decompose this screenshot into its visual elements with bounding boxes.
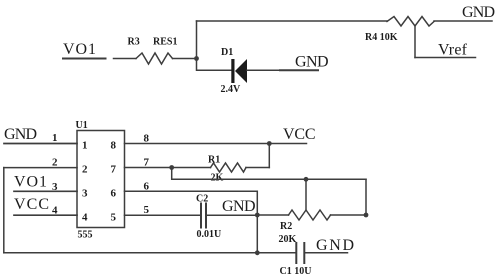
junction node C (on pin 7 wire) xyxy=(169,165,174,170)
wire pin 3 xyxy=(14,190,77,192)
svg-text:3: 3 xyxy=(82,188,88,200)
svg-text:GND: GND xyxy=(222,198,256,215)
pin number 1 (outside) xyxy=(52,132,58,144)
diode D1 xyxy=(231,59,247,83)
wire bottom rail xyxy=(4,252,296,254)
svg-text:D1: D1 xyxy=(221,47,233,58)
svg-text:1: 1 xyxy=(82,140,88,152)
svg-text:1: 1 xyxy=(52,132,58,144)
svg-text:8: 8 xyxy=(144,133,150,145)
pin number 4 (outside) xyxy=(52,205,58,217)
svg-text:R3: R3 xyxy=(128,37,140,48)
svg-text:VCC: VCC xyxy=(283,126,316,143)
pin number 1 (inside) xyxy=(82,140,88,152)
value label 2K xyxy=(211,173,224,184)
power symbol GND (pin 1) xyxy=(4,126,37,143)
pin number 3 (outside) xyxy=(52,181,58,193)
junction node E (R2 right end) xyxy=(364,213,369,218)
net label VCC (pin 4) xyxy=(14,196,49,213)
junction node F (pin6/pin5/R2) xyxy=(255,213,260,218)
wire R2 to node E xyxy=(331,214,367,216)
wire pin 6 xyxy=(125,191,258,253)
svg-text:GND: GND xyxy=(295,54,329,71)
net label VO1 (pin 3) xyxy=(14,174,47,191)
resistor R3 xyxy=(136,53,173,64)
power symbol GND (bottom) xyxy=(316,237,354,254)
svg-text:8: 8 xyxy=(111,140,117,152)
power symbol GND (after D1) xyxy=(295,54,329,71)
wire pin 4 xyxy=(14,214,77,216)
value label 555 xyxy=(78,230,93,241)
svg-text:VO1: VO1 xyxy=(63,41,96,58)
junction node D (above R2 tap) xyxy=(304,177,309,182)
wire C2 to node F xyxy=(207,214,258,216)
svg-text:C2: C2 xyxy=(196,194,208,205)
wire pin 2 xyxy=(4,167,77,169)
label R2 xyxy=(280,221,292,232)
wire R2 tap xyxy=(305,179,307,210)
label U1 xyxy=(76,120,88,131)
value label C1 10U xyxy=(280,266,312,277)
wire Vref stub xyxy=(415,57,476,59)
svg-text:R2: R2 xyxy=(280,221,292,232)
svg-text:VCC: VCC xyxy=(14,196,49,213)
wire R1 right end up to node B xyxy=(268,144,270,168)
wire pin 1 xyxy=(4,143,77,145)
wire GND underline (thick) xyxy=(280,69,318,71)
pin number 6 (outside) xyxy=(144,181,150,193)
svg-text:2: 2 xyxy=(82,164,88,176)
svg-text:VO1: VO1 xyxy=(14,174,47,191)
svg-text:20K: 20K xyxy=(279,234,297,245)
wire node A down to D1 xyxy=(197,59,232,71)
value label 0.01U xyxy=(197,229,222,240)
svg-text:555: 555 xyxy=(78,230,93,241)
junction node G (bottom wire) xyxy=(255,250,260,255)
label D1 xyxy=(221,47,233,58)
wire node A up xyxy=(196,21,198,59)
junction node A xyxy=(194,56,199,61)
pin number 3 (inside) xyxy=(82,188,88,200)
pin number 4 (inside) xyxy=(82,212,88,224)
svg-text:Vref: Vref xyxy=(438,42,468,59)
resistor R4 (with center tap) xyxy=(387,17,434,27)
svg-text:5: 5 xyxy=(111,212,117,224)
value label 20K xyxy=(279,234,297,245)
wire R3 to node A xyxy=(173,58,197,60)
resistor R1 xyxy=(211,163,247,172)
wire VO1 to R3 xyxy=(114,58,137,60)
wire pin 5 to C2 xyxy=(125,214,201,216)
pin number 7 (outside) xyxy=(144,157,150,169)
pin number 6 (inside) xyxy=(111,188,117,200)
value label 2.4V xyxy=(221,84,242,95)
net label VO1 (top) xyxy=(63,41,96,58)
wire C1 to GND xyxy=(305,252,348,254)
svg-text:2.4V: 2.4V xyxy=(221,84,242,95)
svg-text:7: 7 xyxy=(144,157,150,169)
svg-text:0.01U: 0.01U xyxy=(197,229,222,240)
wire top horizontal to R4 xyxy=(197,20,388,22)
wire VO1 underline xyxy=(63,58,106,60)
svg-text:C1 10U: C1 10U xyxy=(280,266,312,277)
wire R4 tap down xyxy=(414,26,416,58)
svg-text:GND: GND xyxy=(316,237,354,254)
svg-text:GND: GND xyxy=(462,4,495,21)
pin number 8 (inside) xyxy=(111,140,117,152)
svg-text:6: 6 xyxy=(111,188,117,200)
power symbol GND (top right) xyxy=(462,4,495,21)
svg-text:GND: GND xyxy=(4,126,37,143)
svg-text:4: 4 xyxy=(82,212,88,224)
pin number 2 (outside) xyxy=(52,157,58,169)
pin number 8 (outside) xyxy=(144,133,150,145)
wire R4 to GND xyxy=(434,20,492,22)
wire pin 7 xyxy=(125,167,211,169)
svg-text:U1: U1 xyxy=(76,120,88,131)
wire pin 8 to VCC xyxy=(125,143,307,145)
svg-text:2K: 2K xyxy=(211,173,224,184)
wire node F to R2 xyxy=(257,214,288,216)
wire R1 to vertical xyxy=(246,167,269,169)
svg-text:R4 10K: R4 10K xyxy=(365,32,398,43)
wire node C jog down xyxy=(172,168,366,180)
resistor R2 (with center tap) xyxy=(289,210,331,220)
label R4 10K xyxy=(365,32,398,43)
svg-text:R1: R1 xyxy=(208,155,220,166)
net label Vref xyxy=(438,42,468,59)
capacitor C2 xyxy=(201,204,206,228)
wire right side down to R2 end xyxy=(365,179,367,215)
value label RES1 xyxy=(153,37,177,48)
pin number 5 (outside) xyxy=(144,204,150,216)
svg-text:2: 2 xyxy=(52,157,58,169)
label R3 xyxy=(128,37,140,48)
pin number 5 (inside) xyxy=(111,212,117,224)
wire pin 2 down left side xyxy=(3,168,5,253)
svg-text:RES1: RES1 xyxy=(153,37,177,48)
pin number 2 (inside) xyxy=(82,164,88,176)
wire D1 to GND xyxy=(247,69,318,71)
svg-text:7: 7 xyxy=(111,164,117,176)
label R1 xyxy=(208,155,220,166)
capacitor C1 xyxy=(296,243,304,263)
net label VCC (pin 8) xyxy=(283,126,316,143)
label C2 xyxy=(196,194,208,205)
pin number 7 (inside) xyxy=(111,164,117,176)
op-amp U1 body (555 IC) xyxy=(77,131,125,228)
svg-text:5: 5 xyxy=(144,204,150,216)
junction node B (on pin 8 wire) xyxy=(267,141,272,146)
power symbol GND (at C2) xyxy=(222,198,256,215)
